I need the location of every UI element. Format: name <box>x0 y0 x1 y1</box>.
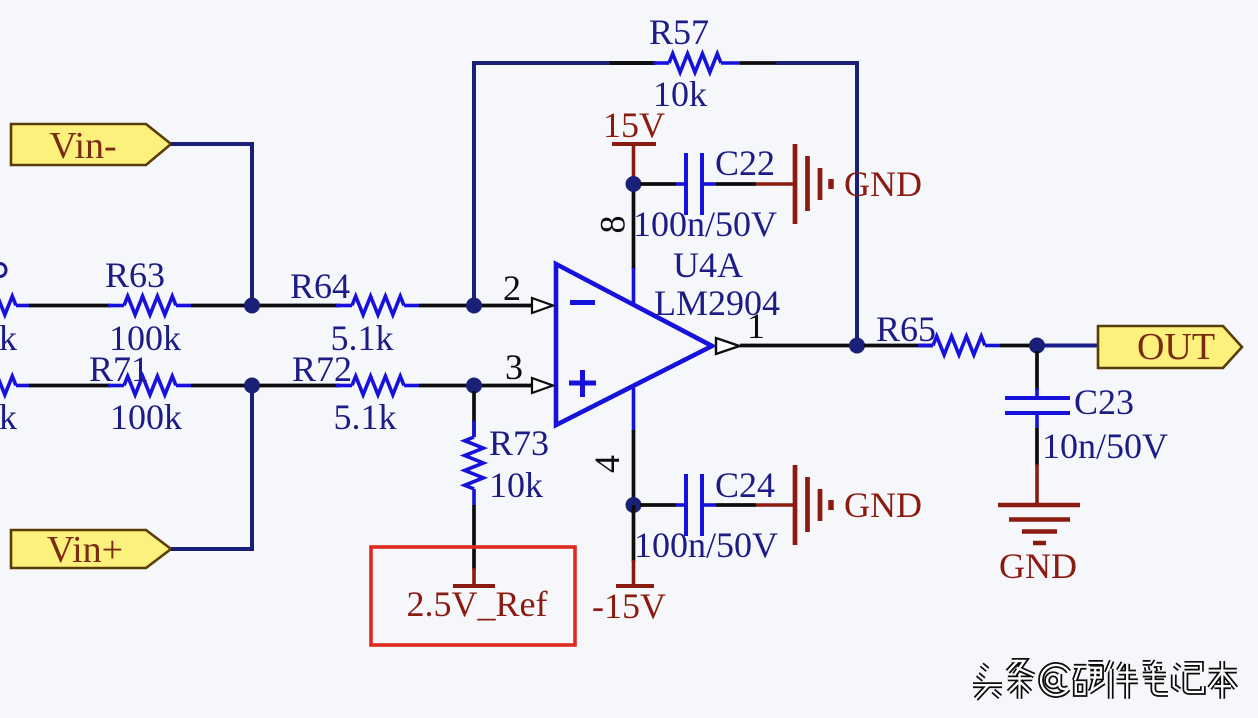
wire Vin+ to node B <box>171 391 252 549</box>
wire row1 segment 2 <box>191 304 340 308</box>
resistor R72 <box>336 376 419 395</box>
resistor R57 <box>653 54 740 73</box>
svg-text:C23: C23 <box>1074 382 1134 422</box>
resistor R65 <box>864 336 1000 355</box>
resistor R73 (vertical) <box>465 391 484 505</box>
wire C22 right black <box>716 182 756 186</box>
svg-text:R73: R73 <box>489 423 549 463</box>
wire row1 segment 3 to pin 2 <box>419 304 531 308</box>
wire top black segment right of R57 <box>740 61 778 65</box>
op-amp U4A <box>556 264 712 425</box>
svg-text:15V: 15V <box>603 105 665 145</box>
wire top black segment left of R57 <box>610 61 656 65</box>
svg-text:Vin+: Vin+ <box>47 529 123 571</box>
power symbol 15V <box>612 144 656 184</box>
ground symbol GND (middle, rotated) <box>756 465 831 545</box>
svg-text:GND: GND <box>844 164 922 204</box>
wire C23 to ground <box>1035 428 1039 505</box>
port OUT <box>1098 326 1242 368</box>
svg-text:2.5V_Ref: 2.5V_Ref <box>407 584 548 624</box>
svg-text:OUT: OUT <box>1137 326 1215 368</box>
power symbol 2.5V_Ref <box>453 568 495 586</box>
junction node E (output) <box>849 338 865 354</box>
wire row2 segment 3 to pin 3 <box>419 384 531 388</box>
svg-text:R72: R72 <box>292 349 352 389</box>
wire row2 left partial resistor <box>0 376 30 395</box>
svg-text:-15V: -15V <box>592 586 666 626</box>
svg-text:Vin-: Vin- <box>49 125 116 167</box>
junction node B <box>244 378 260 394</box>
power symbol -15V <box>616 584 654 588</box>
resistor R63 <box>108 296 191 315</box>
partial resistor at left edge row 1 <box>0 296 30 315</box>
svg-text:8: 8 <box>593 216 633 234</box>
svg-text:GND: GND <box>844 485 922 525</box>
svg-text:100k: 100k <box>110 397 182 437</box>
svg-text:100n/50V: 100n/50V <box>634 525 778 565</box>
wire C24 right black <box>716 503 756 507</box>
pin 1 arrow (output) <box>716 338 740 354</box>
svg-text:R57: R57 <box>649 12 709 52</box>
wire node F to OUT port <box>1037 344 1098 348</box>
svg-text:R71: R71 <box>89 349 149 389</box>
wire feedback up branch <box>474 63 654 300</box>
capacitor C22 <box>676 153 716 215</box>
junction at pin 8 / C22 <box>626 176 642 192</box>
svg-text:100n/50V: 100n/50V <box>633 204 777 244</box>
pin 3 arrow <box>532 378 553 393</box>
svg-text:R65: R65 <box>876 309 936 349</box>
watermark 头条 @硬件笔记本 <box>973 660 1237 699</box>
junction node D (non-inverting) <box>466 378 482 394</box>
capacitor C24 <box>676 474 716 536</box>
capacitor C23 (vertical) <box>1005 351 1070 428</box>
ground symbol GND (bottom) <box>998 505 1080 543</box>
port Vin+ <box>11 529 171 571</box>
resistor R71 <box>108 376 191 395</box>
pin 4 wire <box>632 388 636 505</box>
wire row2 segment 2 <box>191 384 340 388</box>
wire Vin- to node A <box>171 144 252 300</box>
ground symbol GND (top, rotated) <box>756 144 831 224</box>
pin 2 arrow <box>532 298 553 313</box>
junction at pin 4 / C24 <box>626 497 642 513</box>
wire row1 segment 1 <box>29 304 111 308</box>
annotation red rectangle <box>371 547 575 645</box>
svg-text:U4A: U4A <box>673 245 743 285</box>
wire C22 left <box>640 182 676 186</box>
svg-text:3: 3 <box>505 347 523 387</box>
svg-text:10n/50V: 10n/50V <box>1042 426 1168 466</box>
wire output to node E <box>740 344 860 348</box>
wire top navy segment to corner <box>776 61 857 65</box>
partial label fragment top left <box>0 264 6 277</box>
svg-text:C22: C22 <box>715 143 775 183</box>
pin 8 wire <box>632 184 636 305</box>
svg-text:R64: R64 <box>290 266 350 306</box>
wire row2 segment 1 <box>29 384 111 388</box>
wire -15V branch <box>632 505 636 586</box>
svg-text:k: k <box>0 318 17 358</box>
wire R73 to 2.5V_Ref <box>472 505 476 570</box>
svg-text:R63: R63 <box>105 255 165 295</box>
svg-text:10k: 10k <box>489 465 543 505</box>
junction node F (C23 top) <box>1029 338 1045 354</box>
svg-text:C24: C24 <box>715 465 775 505</box>
junction node C (inverting) <box>466 298 482 314</box>
svg-text:k: k <box>0 397 17 437</box>
svg-text:5.1k: 5.1k <box>334 397 397 437</box>
wire feedback down to output node <box>855 61 859 345</box>
svg-text:1: 1 <box>747 306 765 346</box>
svg-text:2: 2 <box>503 268 521 308</box>
junction node A <box>244 298 260 314</box>
wire C24 left <box>640 503 676 507</box>
svg-text:4: 4 <box>587 455 627 473</box>
wire R65 to node F <box>1000 344 1040 348</box>
svg-text:GND: GND <box>999 546 1077 586</box>
port Vin- <box>11 124 171 167</box>
resistor R64 <box>336 296 419 315</box>
